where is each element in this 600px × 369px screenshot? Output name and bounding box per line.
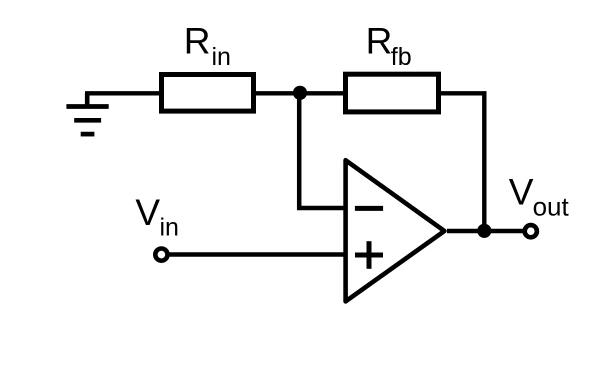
node B output junction dot — [477, 224, 491, 238]
node A junction dot — [293, 86, 307, 100]
wire Rin to node A — [256, 91, 300, 95]
svg-text:V: V — [509, 172, 534, 213]
svg-text:in: in — [160, 213, 179, 241]
resistor Rin — [162, 75, 254, 112]
svg-text:R: R — [366, 21, 393, 62]
label Rin — [184, 21, 231, 72]
svg-text:R: R — [184, 21, 211, 62]
wire node A to Rfb — [300, 91, 345, 95]
wire Vin to non-inverting input — [168, 252, 346, 257]
label Vout — [509, 172, 570, 222]
resistor Rfb — [346, 74, 439, 112]
terminal Vout (open circle) — [525, 225, 537, 237]
ground — [66, 93, 108, 134]
minus symbol (inverting input) — [355, 206, 383, 211]
wire ground to Rin — [85, 91, 160, 95]
wire Rfb to feedback branch — [441, 93, 484, 231]
label Vin — [135, 192, 179, 242]
terminal Vin (open circle) — [155, 249, 167, 261]
label Rfb — [366, 21, 412, 71]
plus symbol (non-inverting input) — [355, 241, 383, 269]
svg-text:V: V — [135, 192, 160, 233]
wire node A to inverting input — [299, 93, 345, 208]
op-amp U1 — [346, 160, 445, 301]
svg-text:fb: fb — [391, 43, 412, 71]
wire op-amp output — [447, 229, 523, 233]
svg-text:in: in — [212, 43, 231, 71]
svg-text:out: out — [533, 192, 570, 222]
